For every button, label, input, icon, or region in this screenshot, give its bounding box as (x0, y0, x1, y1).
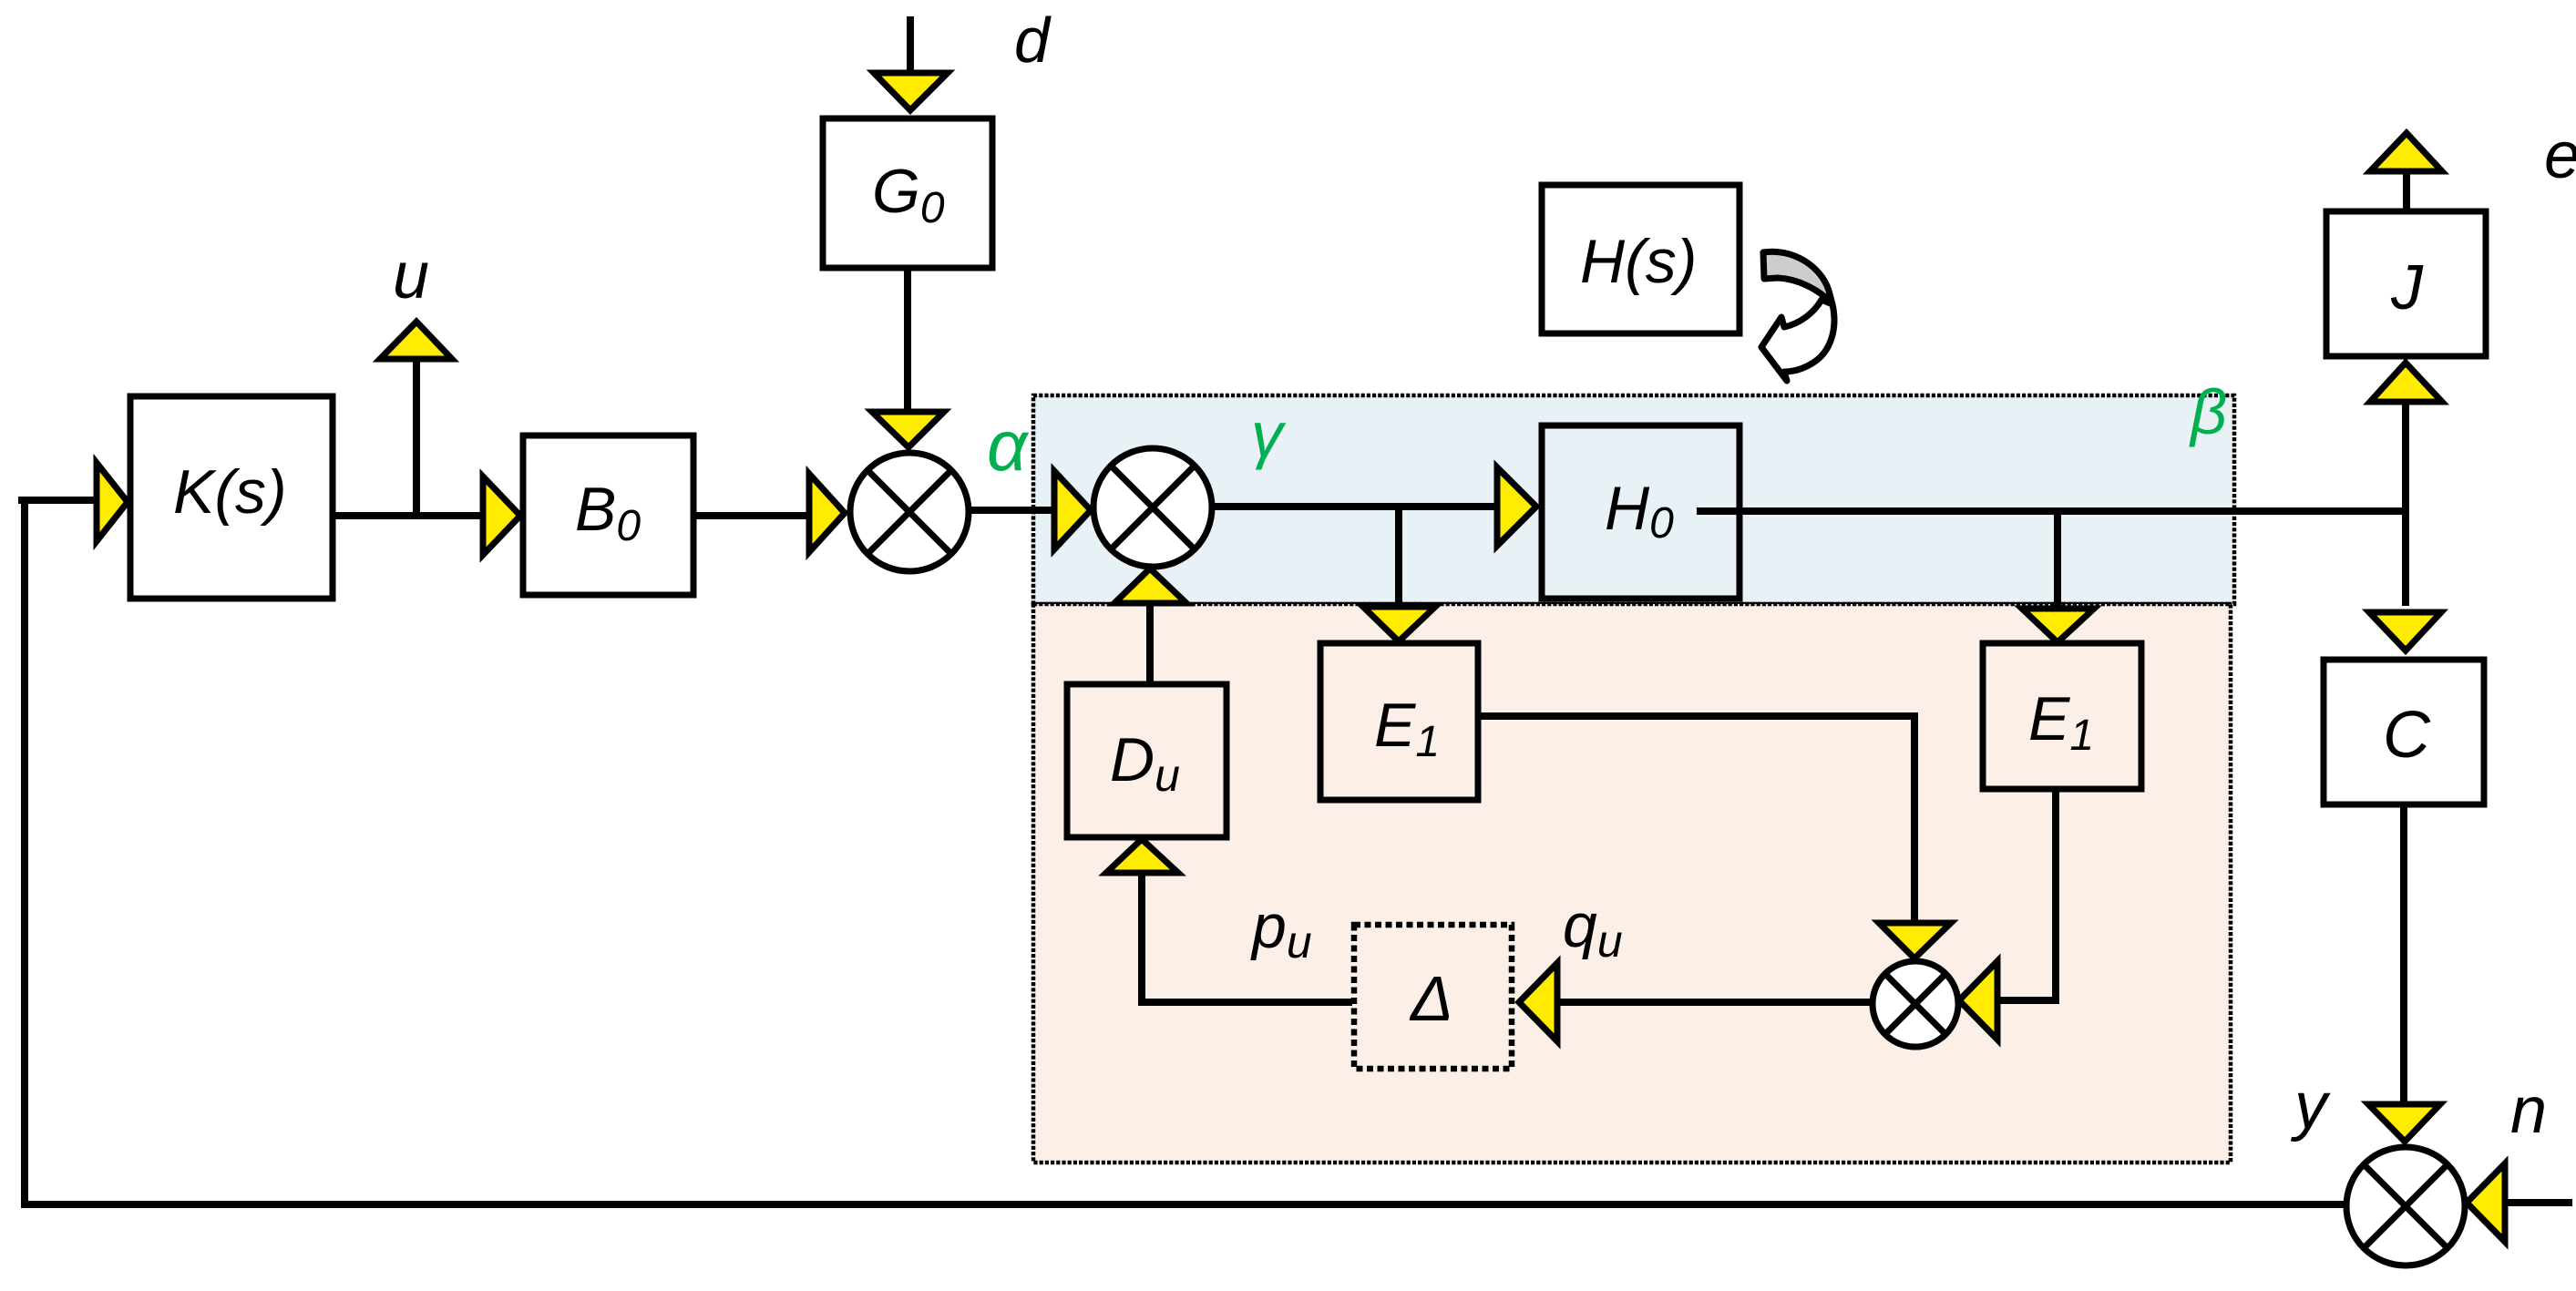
block H0 (1542, 425, 1740, 599)
arrowhead n (left) (2467, 1163, 2505, 1242)
arrowhead into Du (up) (1106, 839, 1178, 873)
block H(s) (1542, 185, 1740, 333)
wire J to e (2403, 171, 2410, 211)
arrowhead into multiplier 1 (right) (809, 474, 845, 552)
svg-text:y: y (2290, 1070, 2331, 1142)
arrowhead into multiplier 2 (1054, 471, 1091, 549)
wire Du up to multiplier 2 (1146, 603, 1154, 684)
arrowhead u (up) (380, 322, 452, 359)
node u junction (413, 357, 420, 516)
wire n input (2505, 1199, 2572, 1206)
wire feedback bottom horizontal (21, 1201, 2347, 1208)
wire gamma: multiplier2 to H0 (1211, 503, 1497, 510)
wire d input (907, 16, 914, 73)
arrowhead qu into Delta (left) (1519, 963, 1557, 1041)
arrowhead into E1 right (down) (2022, 609, 2094, 642)
svg-text:C: C (2383, 699, 2431, 772)
block E1 left (1320, 643, 1478, 800)
multiplier 2 (circle with X) (1093, 448, 1212, 567)
arrowhead into multiplier 3 (down) (1879, 923, 1951, 958)
arrowhead into multiplier 1 (down) (872, 412, 944, 447)
block C (2324, 660, 2484, 804)
arrowhead into multiplier 3 (left) (1959, 961, 1997, 1040)
multiplier 3 (small circle with X) (1873, 961, 1958, 1047)
arrowhead d (down) (874, 73, 948, 110)
svg-text:γ: γ (1251, 399, 1287, 470)
wire up to J (2402, 402, 2409, 511)
arrowhead from Du into multiplier 2 (up) (1114, 569, 1186, 603)
arrowhead e (up) (2370, 133, 2442, 171)
wire E1 left output to elbow (1478, 716, 1914, 923)
block Du (1067, 684, 1226, 837)
svg-text:d: d (1014, 5, 1052, 76)
svg-text:J: J (2390, 251, 2424, 323)
wire stub into K(s) (18, 497, 95, 504)
svg-text:e: e (2544, 119, 2576, 192)
block K(s) (130, 396, 333, 599)
svg-text:α: α (987, 405, 1030, 486)
block B0 (523, 435, 693, 595)
wire E1 right output down and left (1997, 786, 2056, 1000)
multiplier 4 (circle with X, y/n) (2346, 1147, 2465, 1265)
svg-text:β: β (2189, 376, 2227, 447)
wire alpha: multiplier1 to multiplier2 (968, 507, 1054, 514)
arrowhead into multiplier 4 (down) (2368, 1104, 2440, 1142)
wire multiplier 3 to Delta (1559, 999, 1873, 1006)
block E1 right (1983, 643, 2141, 789)
wire branch down to E1 right (2054, 511, 2061, 610)
arrowhead into K(s) (97, 463, 128, 541)
block Delta (dotted) (1354, 925, 1512, 1069)
block J (2326, 211, 2486, 356)
wire branch gamma down to E1 left (1395, 507, 1402, 609)
svg-text:u: u (393, 240, 429, 313)
shaded region uncertainty (pink band) (1033, 604, 2231, 1163)
arrowhead into H0 (1497, 467, 1536, 546)
arrowhead into B0 (483, 476, 520, 555)
wire Delta output pu to Du (1142, 873, 1352, 1002)
rotation arrow beside H(s) (1761, 251, 1834, 381)
block G0 (823, 118, 992, 268)
arrowhead into E1 left (down) (1363, 607, 1435, 641)
shaded region beta (blue band) (1033, 395, 2234, 604)
wire feedback left vertical (21, 499, 28, 1204)
svg-text:Δ: Δ (1409, 963, 1453, 1034)
svg-text:H(s): H(s) (1580, 227, 1697, 296)
wire H0 output to right (1697, 507, 2406, 515)
wire G0 to multiplier 1 (904, 268, 911, 412)
arrowhead into J (up) (2370, 363, 2442, 402)
wire C down to multiplier 4 (2400, 804, 2407, 1102)
multiplier 1 (circle with X) (850, 453, 969, 571)
wire K(s) to B0 (333, 512, 807, 519)
wire down to C (2402, 511, 2409, 606)
svg-text:K(s): K(s) (173, 457, 287, 527)
svg-text:n: n (2510, 1074, 2547, 1147)
arrowhead into C (down) (2369, 612, 2441, 651)
